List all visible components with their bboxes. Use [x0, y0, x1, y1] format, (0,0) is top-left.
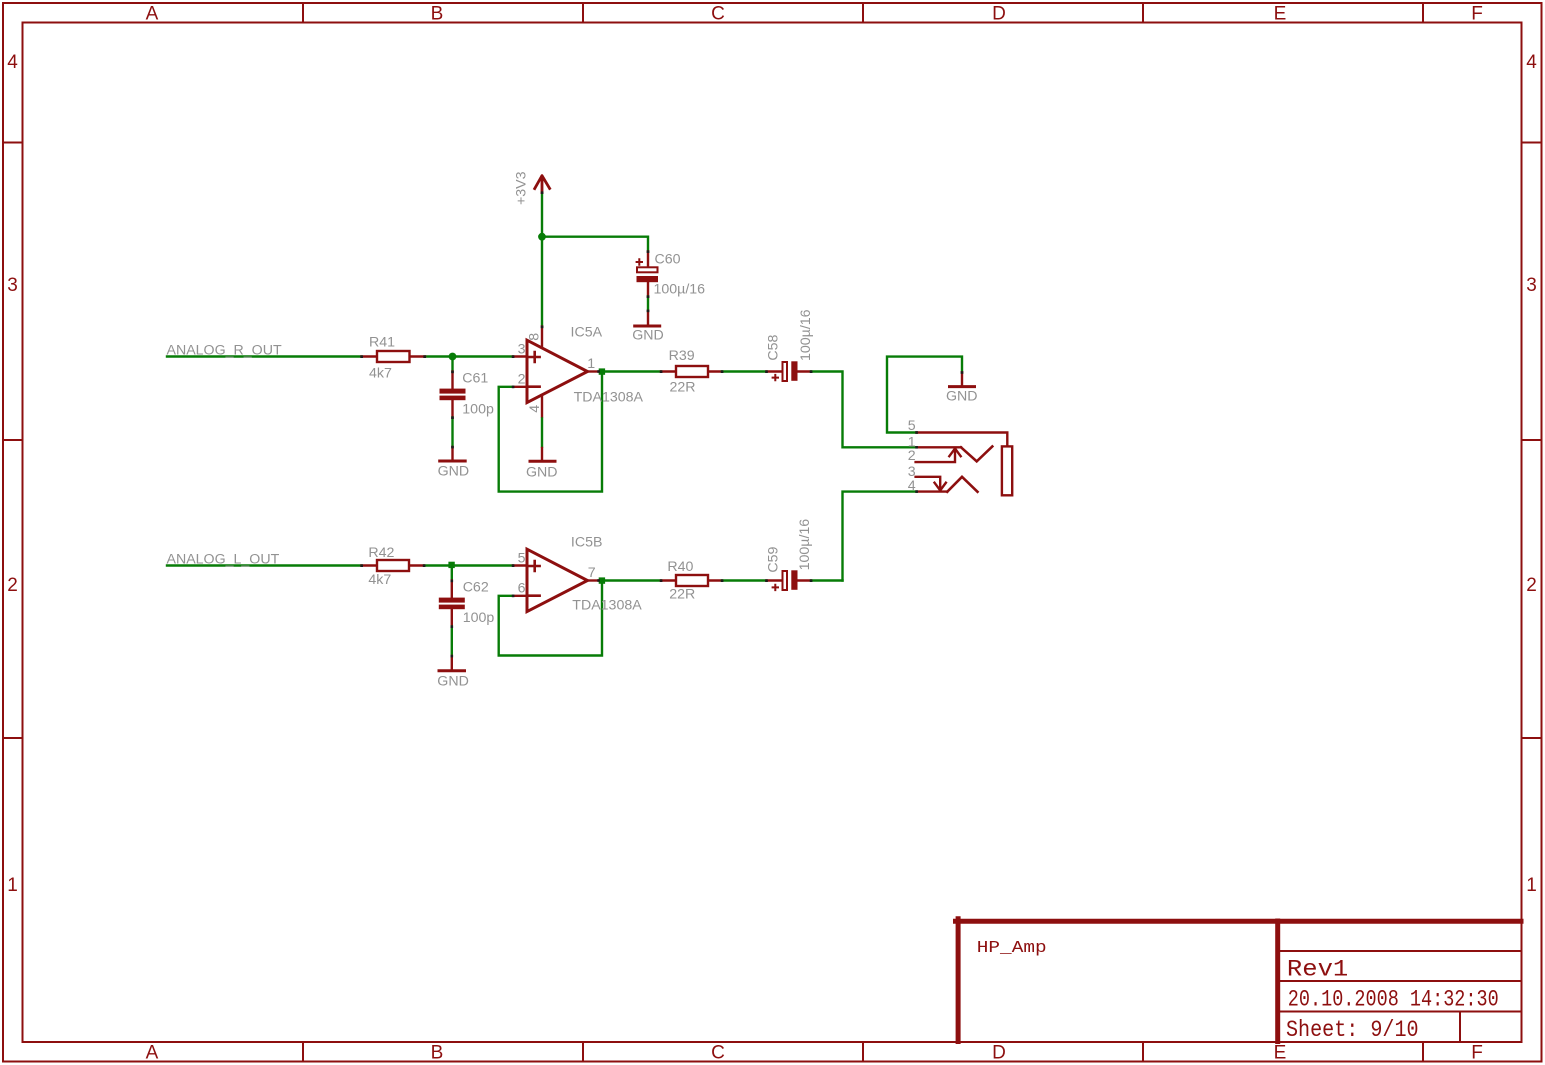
- svg-text:R41: R41: [369, 334, 395, 350]
- svg-text:100µ/16: 100µ/16: [798, 309, 814, 361]
- wire R39 to C58: [722, 370, 767, 372]
- jack sleeve body: [1002, 446, 1012, 495]
- pin 2 lead: [513, 386, 527, 388]
- svg-text:6: 6: [518, 581, 526, 597]
- jack pin 1 tip lead: [917, 446, 961, 448]
- svg-text:IC5B: IC5B: [571, 535, 603, 551]
- wire C62 branch: [451, 566, 453, 581]
- resistor R42: [362, 564, 425, 566]
- svg-text:C62: C62: [463, 579, 489, 595]
- svg-text:3: 3: [7, 275, 18, 296]
- wire R41 to IC5A pin3 with junction: [425, 355, 514, 357]
- pin 5 lead: [513, 564, 527, 566]
- wire output to R40: [605, 579, 661, 581]
- svg-text:C: C: [711, 1043, 725, 1064]
- svg-text:2: 2: [7, 575, 18, 596]
- resistor R40: [661, 579, 722, 581]
- svg-text:GND: GND: [437, 674, 469, 690]
- title block row line 1: [1280, 950, 1521, 952]
- wire ANALOG_R_OUT net: [167, 355, 362, 357]
- svg-text:4: 4: [908, 478, 916, 494]
- node junction at R42/C62: [448, 562, 454, 568]
- node power junction: [538, 233, 546, 241]
- pin 4 lead: [541, 395, 543, 417]
- svg-text:Rev1: Rev1: [1287, 956, 1348, 983]
- svg-text:2: 2: [1526, 575, 1537, 596]
- svg-text:C61: C61: [462, 370, 488, 386]
- jack pin 5 sleeve lead: [917, 433, 1008, 446]
- node junction at R41/C61: [449, 353, 457, 361]
- title block row line 3: [1280, 1011, 1521, 1013]
- wire feedback loop IC5A: [499, 374, 602, 492]
- jack pin 3 switch: [916, 477, 941, 489]
- title block row line 2: [1280, 980, 1521, 982]
- svg-text:A: A: [146, 1043, 159, 1064]
- pin 6 lead: [513, 595, 527, 597]
- ground below C60: [647, 311, 649, 325]
- wire C58 to jack pin1: [811, 372, 917, 448]
- svg-text:D: D: [992, 4, 1006, 25]
- svg-text:R39: R39: [669, 348, 695, 364]
- svg-text:4: 4: [1526, 52, 1537, 73]
- svg-text:100µ/16: 100µ/16: [654, 282, 706, 298]
- svg-text:HP_Amp: HP_Amp: [977, 938, 1047, 957]
- svg-text:C60: C60: [655, 251, 681, 267]
- svg-text:TDA1308A: TDA1308A: [574, 390, 644, 406]
- svg-text:1: 1: [587, 356, 595, 372]
- svg-text:4: 4: [527, 405, 543, 413]
- svg-text:C: C: [711, 4, 725, 25]
- svg-text:3: 3: [1526, 275, 1537, 296]
- svg-text:4k7: 4k7: [368, 572, 391, 588]
- wire ANALOG_L_OUT net: [167, 564, 362, 566]
- pin connection dots (black): [360, 191, 963, 657]
- svg-text:GND: GND: [526, 464, 558, 480]
- svg-text:100p: 100p: [462, 401, 494, 417]
- frame row ticks left: [3, 143, 22, 739]
- svg-text:D: D: [992, 1043, 1006, 1064]
- svg-text:4: 4: [7, 52, 18, 73]
- svg-text:E: E: [1274, 4, 1287, 25]
- svg-text:5: 5: [908, 418, 916, 434]
- frame column ticks top: [303, 3, 1423, 22]
- wire C61 to GND: [451, 418, 453, 448]
- svg-text:4k7: 4k7: [369, 365, 392, 381]
- jack pin 2 switch: [916, 450, 955, 462]
- svg-text:Sheet: 9/10: Sheet: 9/10: [1286, 1017, 1419, 1044]
- svg-text:R42: R42: [368, 545, 394, 561]
- svg-text:B: B: [431, 1043, 444, 1064]
- wire C59 to corner: [811, 579, 843, 581]
- wire R40 to C59: [722, 579, 767, 581]
- frame column ticks bottom: [303, 1042, 1423, 1061]
- svg-text:1: 1: [7, 875, 18, 896]
- svg-text:B: B: [431, 4, 444, 25]
- op-amp IC5B: [527, 549, 588, 611]
- svg-text:C59: C59: [766, 546, 782, 572]
- ground below C61: [451, 447, 453, 460]
- svg-text:22R: 22R: [670, 379, 696, 395]
- capacitor C60: [647, 252, 649, 297]
- resistor R39: [661, 370, 722, 372]
- capacitor C59: [767, 579, 812, 581]
- svg-text:100µ/16: 100µ/16: [797, 519, 813, 571]
- wire jack pin5 to GND net: [887, 357, 962, 433]
- wire R42 to IC5B pin5 with junction: [424, 564, 513, 566]
- svg-text:100p: 100p: [463, 610, 495, 626]
- resistor R41: [362, 355, 426, 357]
- svg-text:2: 2: [518, 372, 526, 388]
- svg-text:+3V3: +3V3: [514, 171, 530, 205]
- svg-text:TDA1308A: TDA1308A: [572, 598, 642, 614]
- svg-text:2: 2: [908, 448, 916, 464]
- node output junction square: [599, 577, 605, 583]
- wire jack pin4 from C59: [843, 492, 917, 581]
- svg-text:GND: GND: [946, 388, 978, 404]
- svg-text:A: A: [146, 4, 159, 25]
- svg-text:GND: GND: [438, 464, 470, 480]
- svg-text:ANALOG_L_OUT: ANALOG_L_OUT: [167, 551, 280, 567]
- svg-text:F: F: [1471, 1043, 1483, 1064]
- svg-text:E: E: [1274, 1043, 1287, 1064]
- pin 7 output lead: [588, 579, 599, 581]
- svg-text:IC5A: IC5A: [571, 325, 603, 341]
- jack ring contact: [947, 477, 977, 492]
- supply +3V3: [541, 193, 543, 237]
- title block thick middle divider: [1275, 921, 1280, 1042]
- wire +3V3 to C60: [542, 237, 648, 252]
- capacitor C62: [451, 581, 453, 627]
- frame row ticks right: [1522, 143, 1541, 739]
- ground near jack: [961, 372, 963, 385]
- wire feedback loop IC5B: [499, 583, 602, 656]
- svg-text:3: 3: [518, 341, 526, 357]
- node output junction square: [599, 368, 605, 374]
- svg-text:20.10.2008 14:32:30: 20.10.2008 14:32:30: [1288, 987, 1499, 1014]
- svg-text:5: 5: [518, 550, 526, 566]
- svg-text:8: 8: [527, 333, 543, 341]
- title block thick top border: [956, 919, 1522, 924]
- jack tip contact: [961, 447, 992, 462]
- ground below IC5A pin4: [530, 460, 555, 463]
- svg-text:7: 7: [588, 565, 596, 581]
- svg-text:1: 1: [1526, 875, 1537, 896]
- pin 8 lead: [541, 237, 543, 327]
- wire C61 branch: [451, 357, 453, 372]
- title block sheet cell divider: [1459, 1012, 1461, 1042]
- svg-text:F: F: [1471, 4, 1483, 25]
- title block thick left border: [956, 919, 961, 1042]
- wire C62 to GND: [451, 627, 453, 657]
- capacitor C61: [451, 372, 453, 418]
- pin 3 lead: [513, 355, 527, 357]
- capacitor C58: [767, 370, 812, 372]
- jack pin 4 ring lead: [917, 490, 948, 492]
- wire output to R39: [605, 370, 661, 372]
- pin 1 output lead: [588, 370, 599, 372]
- wire C60 to GND: [647, 297, 649, 311]
- svg-text:C58: C58: [766, 334, 782, 360]
- svg-text:GND: GND: [632, 328, 664, 344]
- op-amp IC5A: [527, 340, 588, 402]
- svg-text:22R: 22R: [669, 586, 695, 602]
- svg-text:ANALOG_R_OUT: ANALOG_R_OUT: [167, 342, 282, 358]
- svg-text:R40: R40: [667, 559, 693, 575]
- ground below C62: [451, 656, 453, 670]
